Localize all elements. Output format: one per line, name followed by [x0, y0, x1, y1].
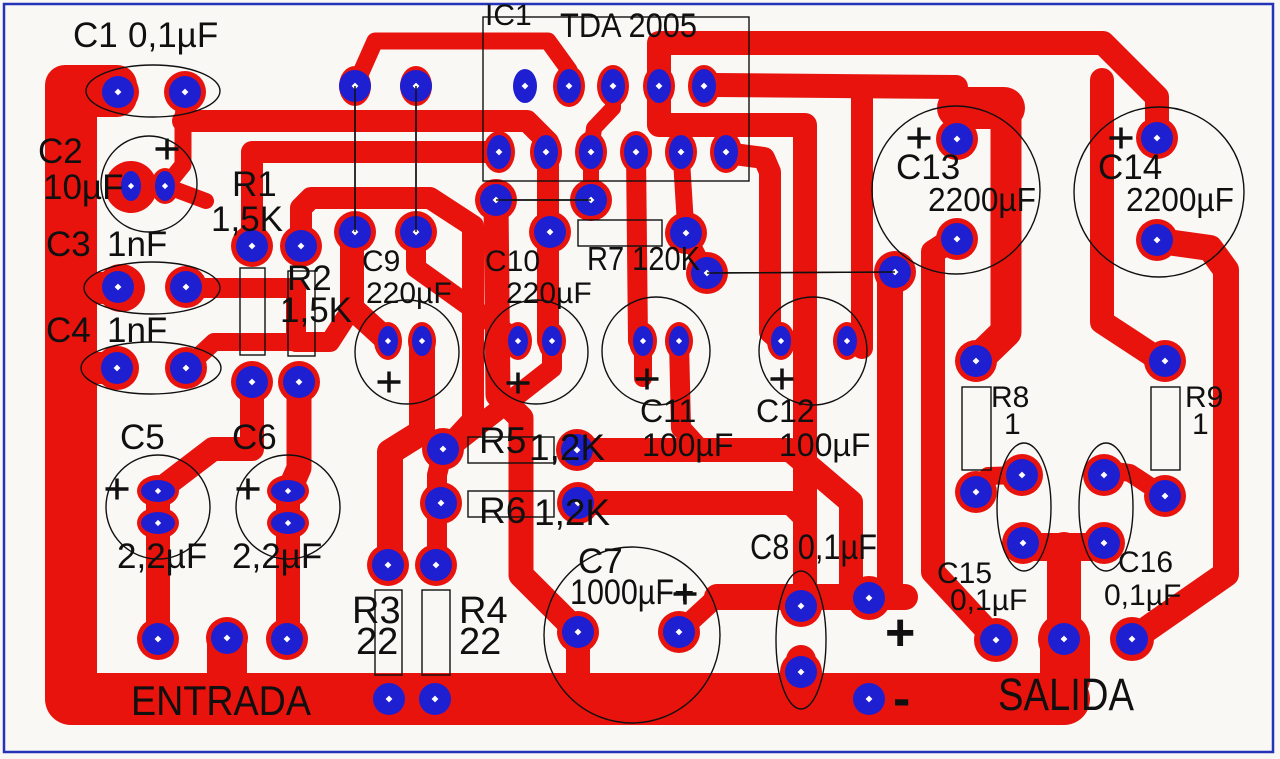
svg-text:-: -	[893, 670, 910, 728]
svg-text:C6: C6	[232, 418, 277, 457]
svg-text:100µF: 100µF	[642, 427, 733, 463]
svg-text:C3: C3	[46, 225, 91, 264]
svg-text:C9: C9	[362, 245, 400, 278]
svg-text:1,2K: 1,2K	[529, 427, 605, 468]
svg-text:0,1µF: 0,1µF	[128, 16, 218, 55]
svg-text:R5: R5	[479, 420, 526, 461]
svg-text:R1: R1	[232, 165, 277, 204]
svg-text:1nF: 1nF	[107, 311, 167, 350]
svg-text:C12: C12	[756, 393, 815, 429]
svg-text:220µF: 220µF	[506, 277, 592, 310]
svg-text:2200µF: 2200µF	[1126, 181, 1234, 218]
svg-text:IC1: IC1	[485, 0, 532, 32]
svg-text:1: 1	[1004, 408, 1021, 441]
svg-text:100µF: 100µF	[779, 427, 870, 463]
svg-text:0,1µF: 0,1µF	[1104, 579, 1181, 612]
svg-text:R6: R6	[479, 490, 526, 531]
svg-text:0,1µF: 0,1µF	[950, 584, 1027, 617]
svg-text:SALIDA: SALIDA	[998, 669, 1134, 720]
svg-text:1nF: 1nF	[107, 225, 167, 264]
svg-text:22: 22	[459, 621, 501, 663]
svg-text:+: +	[885, 604, 915, 662]
svg-text:1,5K: 1,5K	[280, 291, 352, 330]
svg-text:C4: C4	[46, 311, 91, 350]
svg-text:2,2µF: 2,2µF	[117, 537, 207, 576]
svg-text:ENTRADA: ENTRADA	[131, 677, 311, 724]
svg-text:1,2K: 1,2K	[534, 492, 610, 533]
svg-text:22: 22	[356, 621, 398, 663]
svg-text:R7 120K: R7 120K	[587, 240, 700, 277]
svg-text:C2: C2	[38, 132, 83, 171]
svg-text:C16: C16	[1118, 546, 1173, 579]
svg-text:1,5K: 1,5K	[211, 200, 283, 239]
svg-text:1000µF: 1000µF	[570, 573, 674, 612]
svg-text:1: 1	[1192, 408, 1209, 441]
svg-text:220µF: 220µF	[366, 277, 452, 310]
svg-text:C1: C1	[73, 16, 118, 55]
svg-text:TDA 2005: TDA 2005	[560, 7, 697, 45]
svg-text:10µF: 10µF	[43, 168, 123, 207]
svg-text:2,2µF: 2,2µF	[232, 537, 322, 576]
svg-text:C10: C10	[485, 245, 540, 278]
svg-text:C11: C11	[640, 393, 696, 429]
svg-text:2200µF: 2200µF	[928, 181, 1036, 218]
svg-text:C8 0,1µF: C8 0,1µF	[750, 528, 877, 567]
svg-text:C5: C5	[120, 418, 165, 457]
svg-text:+: +	[674, 573, 694, 612]
